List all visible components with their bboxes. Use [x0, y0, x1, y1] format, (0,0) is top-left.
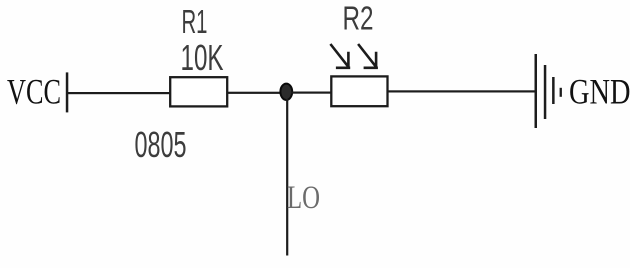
- svg-text:GND: GND: [569, 72, 630, 112]
- ground bar 3: [552, 77, 555, 104]
- wire R1 to node: [228, 92, 281, 94]
- ground bar 1 (long): [535, 54, 538, 128]
- wire node down to LO output: [286, 99, 288, 256]
- resistor R1: [170, 77, 227, 106]
- svg-text:10K: 10K: [181, 37, 224, 78]
- ground bar 4 (short dash): [560, 88, 562, 97]
- node junction dot: [280, 84, 292, 100]
- svg-text:R1: R1: [182, 3, 208, 40]
- svg-text:VCC: VCC: [7, 72, 61, 112]
- wire node to R2: [291, 92, 331, 94]
- ground bar 2: [544, 65, 547, 119]
- svg-text:R2: R2: [343, 0, 374, 37]
- light arrow 2: [358, 44, 378, 68]
- photoresistor R2 body: [331, 76, 387, 106]
- wire VCC to R1: [68, 92, 170, 94]
- svg-text:LO: LO: [287, 180, 320, 216]
- light arrow 1: [330, 44, 350, 68]
- VCC terminal bar: [66, 72, 69, 112]
- wire R2 to GND: [389, 90, 536, 92]
- svg-text:0805: 0805: [135, 124, 187, 165]
